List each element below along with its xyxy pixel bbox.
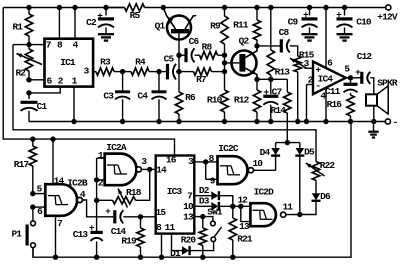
- svg-text:R18: R18: [126, 187, 142, 198]
- svg-text:D2: D2: [199, 185, 210, 196]
- svg-text:D6: D6: [320, 191, 331, 202]
- svg-text:R12: R12: [234, 95, 250, 106]
- svg-text:C3: C3: [103, 90, 114, 101]
- svg-text:IC2D: IC2D: [254, 186, 275, 197]
- svg-text:D5: D5: [304, 147, 315, 158]
- svg-text:C7: C7: [272, 86, 283, 97]
- svg-text:Q1: Q1: [155, 21, 166, 32]
- svg-text:D1: D1: [170, 248, 181, 259]
- svg-text:R22: R22: [320, 160, 336, 171]
- svg-text:R2: R2: [15, 68, 26, 79]
- svg-text:-: -: [393, 117, 398, 128]
- svg-text:R9: R9: [210, 20, 221, 31]
- svg-text:10: 10: [183, 201, 194, 212]
- svg-text:IC2C: IC2C: [218, 143, 239, 154]
- svg-text:C4: C4: [137, 90, 148, 101]
- svg-text:R20: R20: [181, 235, 197, 246]
- svg-text:IC1: IC1: [60, 57, 76, 68]
- svg-text:P1: P1: [11, 229, 22, 240]
- svg-text:15: 15: [156, 207, 167, 218]
- svg-text:IC2B: IC2B: [67, 178, 88, 189]
- svg-text:IC2A: IC2A: [106, 142, 127, 153]
- svg-text:-: -: [315, 80, 320, 91]
- svg-text:R1: R1: [12, 22, 23, 33]
- svg-text:+12V: +12V: [377, 12, 398, 23]
- svg-text:C12: C12: [357, 51, 373, 62]
- svg-text:R11: R11: [233, 19, 249, 30]
- svg-text:C1: C1: [37, 101, 48, 112]
- svg-text:R10: R10: [207, 95, 223, 106]
- svg-text:Q2: Q2: [239, 36, 250, 47]
- svg-text:R7: R7: [196, 74, 207, 85]
- svg-text:11: 11: [165, 222, 176, 233]
- svg-text:R17: R17: [14, 159, 30, 170]
- svg-text:C11: C11: [325, 86, 341, 97]
- svg-text:SW1: SW1: [207, 206, 223, 217]
- svg-text:D3: D3: [199, 195, 210, 206]
- svg-text:R16: R16: [327, 99, 343, 110]
- svg-text:R4: R4: [135, 57, 146, 68]
- svg-text:C5: C5: [164, 54, 175, 65]
- svg-text:12: 12: [237, 195, 248, 206]
- svg-text:IC3: IC3: [167, 186, 183, 197]
- svg-text:14: 14: [54, 175, 65, 186]
- svg-text:16: 16: [166, 155, 177, 166]
- svg-text:13: 13: [239, 221, 250, 232]
- svg-text:R14: R14: [271, 105, 287, 116]
- svg-text:C6: C6: [189, 36, 200, 47]
- svg-text:R13: R13: [275, 67, 291, 78]
- svg-text:C10: C10: [356, 16, 372, 27]
- svg-text:14: 14: [156, 165, 167, 176]
- svg-text:10: 10: [252, 158, 263, 169]
- svg-text:R21: R21: [237, 234, 253, 245]
- svg-text:D4: D4: [260, 147, 271, 158]
- svg-text:R6: R6: [185, 92, 196, 103]
- svg-text:C8: C8: [279, 27, 290, 38]
- svg-text:SPKR: SPKR: [377, 78, 398, 89]
- svg-text:R3: R3: [100, 57, 111, 68]
- svg-text:+: +: [105, 207, 110, 217]
- svg-text:R5: R5: [130, 10, 141, 21]
- svg-text:R8: R8: [202, 42, 213, 53]
- svg-text:11: 11: [282, 201, 293, 212]
- svg-text:R19: R19: [121, 235, 137, 246]
- svg-text:C13: C13: [73, 229, 89, 240]
- svg-text:C2: C2: [86, 17, 97, 28]
- svg-text:C9: C9: [288, 16, 299, 27]
- svg-text:13: 13: [183, 211, 194, 222]
